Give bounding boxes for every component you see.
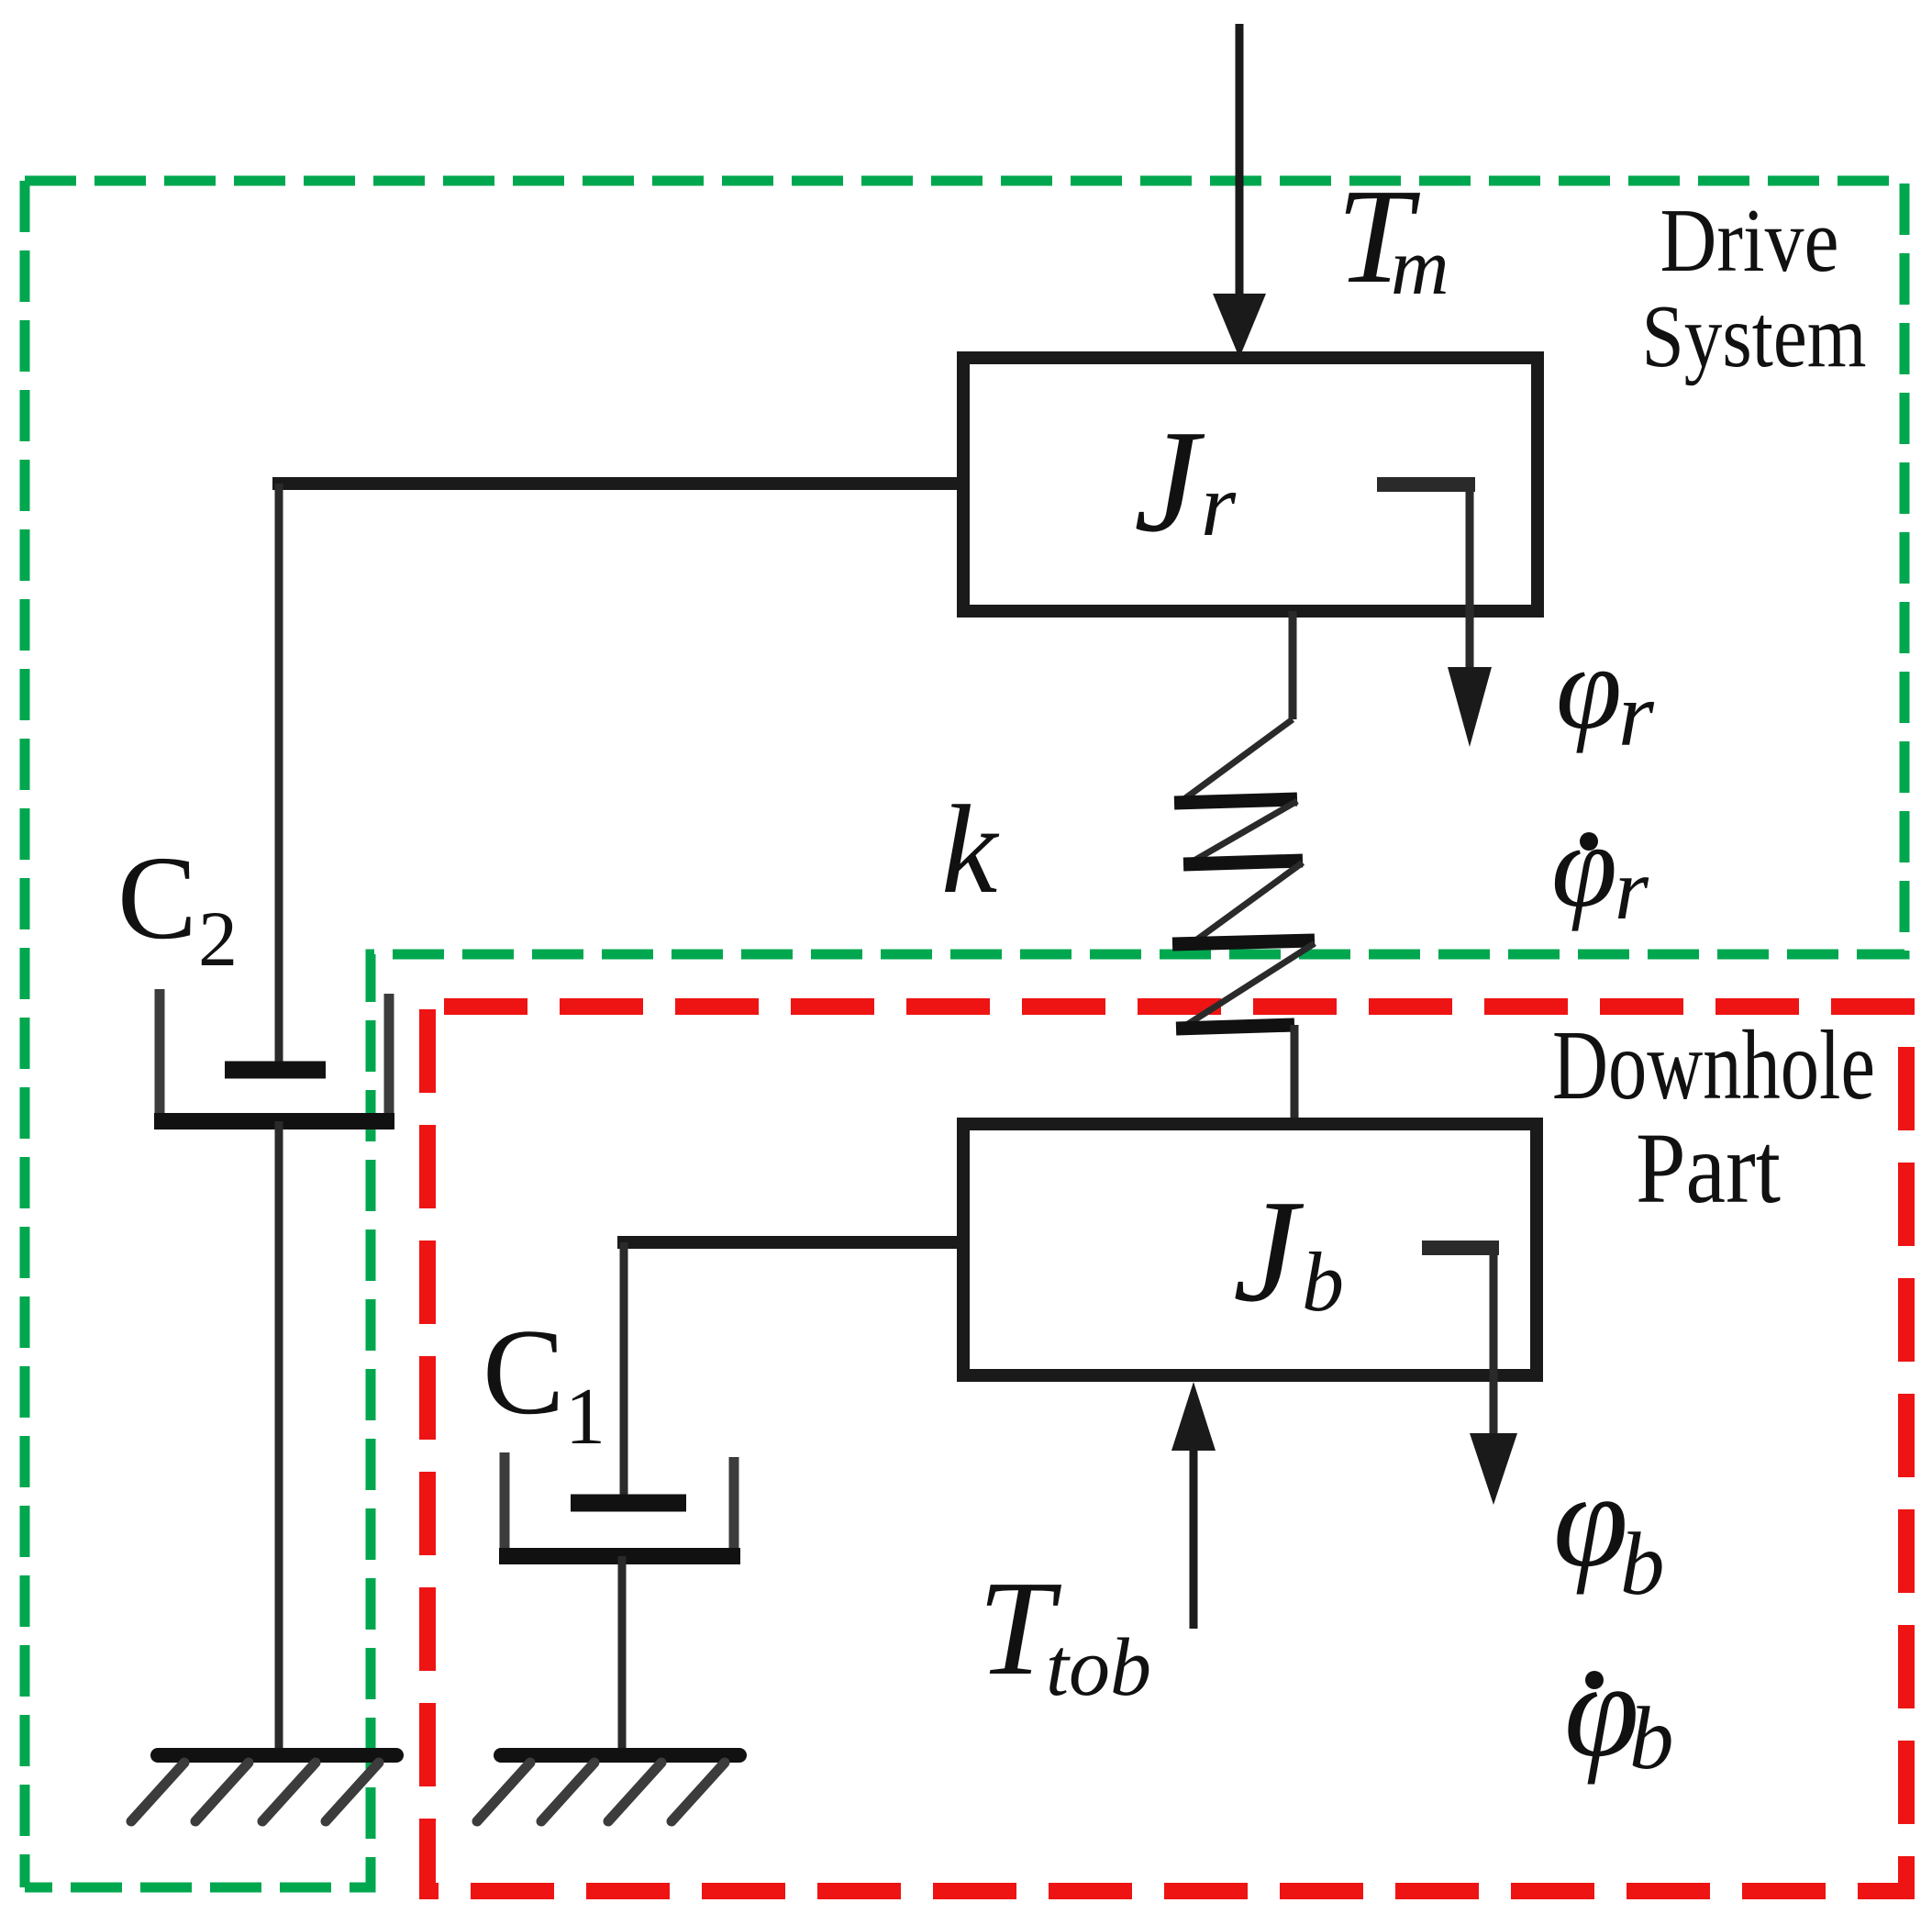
svg-text:k: k [941,779,1000,919]
damper C1 lower rod [618,1556,627,1756]
svg-text:Downhole: Downhole [1552,1011,1875,1120]
svg-text:r: r [1618,663,1655,765]
svg-text:System: System [1642,287,1867,385]
svg-text:C: C [483,1304,564,1440]
svg-text:r: r [1615,840,1649,938]
damper C2 piston plate [225,1062,326,1079]
rotation hook and arrow phi_b [1422,1248,1499,1433]
damper C2 piston rod [275,484,283,1068]
label phi_b dot [1585,1671,1604,1689]
svg-text:tob: tob [1046,1622,1151,1713]
svg-text:φ: φ [1553,1445,1628,1596]
svg-text:J: J [1134,399,1205,562]
damper C2 cup [154,989,394,1121]
svg-text:J: J [1233,1169,1305,1332]
red dashed boundary: Downhole Part region [427,1007,1906,1891]
inertia block Jb [963,1124,1537,1375]
svg-text:φ: φ [1556,622,1622,754]
ground under C1 [477,1755,739,1821]
spring k lower stub [1291,1025,1299,1124]
inertia block Jr [963,358,1538,611]
damper C1 piston plate [571,1495,686,1512]
ground under C2 [131,1755,396,1821]
svg-text:φ: φ [1551,800,1617,932]
svg-text:Part: Part [1636,1112,1781,1224]
svg-text:b: b [1302,1235,1344,1329]
wire Jb to damper C1 [617,1236,963,1249]
svg-text:C: C [117,832,197,964]
spring k upper stub [1289,611,1297,719]
torque arrow T_tob [1171,1382,1216,1629]
torque input arrow Tm [1213,24,1266,358]
svg-text:b: b [1620,1515,1665,1613]
damper C1 cup [499,1452,740,1556]
svg-text:φ: φ [1564,1635,1639,1786]
svg-text:r: r [1201,456,1237,555]
svg-text:Drive: Drive [1660,191,1839,291]
spring k zigzag [1172,719,1315,1029]
wire Jr to damper C2 [272,477,963,490]
svg-text:1: 1 [565,1373,605,1462]
damper C1 piston rod [620,1242,628,1501]
svg-text:2: 2 [198,895,238,983]
rotation hook and arrow phi_r [1377,484,1475,667]
damper C2 lower rod [275,1121,283,1756]
svg-text:b: b [1629,1689,1674,1787]
label phi_r dot [1580,832,1598,851]
svg-text:m: m [1391,223,1449,312]
